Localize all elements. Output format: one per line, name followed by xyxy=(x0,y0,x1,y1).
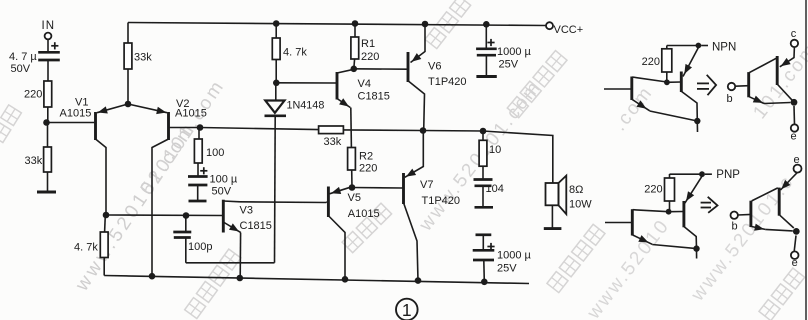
terminal label PNP xyxy=(705,169,740,181)
terminal e bottom (PNP eq) xyxy=(791,251,799,269)
node R1 bottom xyxy=(351,66,358,73)
node NPN base junction xyxy=(664,79,670,85)
node rail 1000u top xyxy=(483,21,490,28)
terminal b (NPN eq) xyxy=(727,83,736,105)
svg-text:50V: 50V xyxy=(11,63,31,75)
speaker 8ohm 10W xyxy=(546,176,593,229)
wire PNP emitter rail xyxy=(652,245,696,249)
node Zobel top xyxy=(480,128,487,135)
node PNP bottom xyxy=(693,245,699,258)
node rail V6 xyxy=(422,21,429,28)
resistor 220 input xyxy=(24,81,52,123)
svg-text:25V: 25V xyxy=(497,263,517,275)
svg-text:A1015: A1015 xyxy=(60,108,92,120)
wire V7 base xyxy=(352,187,403,190)
resistor 10 xyxy=(479,131,501,180)
svg-text:220: 220 xyxy=(642,56,660,68)
svg-text:V3: V3 xyxy=(240,205,253,217)
svg-text:e: e xyxy=(793,154,799,166)
node output xyxy=(420,127,427,134)
svg-text:C1815: C1815 xyxy=(358,91,390,103)
wire V1 base xyxy=(47,122,95,124)
capacitor 1000u/25V bottom xyxy=(473,235,532,282)
svg-text:e: e xyxy=(791,131,797,143)
node rail V2 collector xyxy=(149,273,156,280)
node driver (R2/V5e/V7b) xyxy=(349,184,356,191)
svg-text:1N4148: 1N4148 xyxy=(287,100,325,112)
node diode anode / V4 base xyxy=(273,80,280,87)
node NPN-eq emitter xyxy=(791,99,798,106)
node rail V5 collector xyxy=(342,276,349,283)
ground input xyxy=(37,191,56,194)
resistor R2 220 xyxy=(348,148,378,188)
transistor V6 T1P420 xyxy=(408,24,467,131)
svg-text:V5: V5 xyxy=(348,192,361,204)
svg-text:VCC+: VCC+ xyxy=(554,24,584,36)
transistor V5 A1015 xyxy=(326,187,379,280)
svg-text:220: 220 xyxy=(359,163,377,175)
svg-text:A1015: A1015 xyxy=(175,108,207,120)
diode 1N4148 xyxy=(265,86,325,263)
equivalence arrow NPN xyxy=(697,75,716,95)
node V2 base xyxy=(197,124,204,131)
transistor V2 A1015 xyxy=(128,98,207,276)
svg-text:IN: IN xyxy=(42,20,56,32)
terminal c (NPN eq) xyxy=(791,28,798,47)
resistor 220 (NPN pair) xyxy=(642,46,672,83)
node rail V7 collector xyxy=(415,277,422,284)
svg-text:50V: 50V xyxy=(212,186,232,198)
wire NPN top xyxy=(667,45,699,47)
svg-text:10: 10 xyxy=(489,144,501,156)
svg-text:1: 1 xyxy=(402,300,412,320)
wire bottom rail xyxy=(104,276,529,284)
svg-text:8Ω: 8Ω xyxy=(569,184,583,196)
terminal label NPN xyxy=(701,42,736,54)
wire output to speaker xyxy=(423,131,553,184)
svg-text:33k: 33k xyxy=(25,155,43,167)
node PNP-eq collector xyxy=(793,228,800,235)
node rail V3 emitter xyxy=(237,275,244,282)
svg-text:100p: 100p xyxy=(188,241,212,253)
transistor Q3 (PNP pair driver) xyxy=(605,209,669,244)
svg-text:33k: 33k xyxy=(324,136,342,148)
capacitor 100u/50V xyxy=(188,167,238,201)
resistor 33k tail xyxy=(124,23,152,105)
wire V1 collector to V3 base xyxy=(106,214,222,217)
node rail top 4.7k xyxy=(273,20,280,27)
capacitor C-in 4.7u/50V xyxy=(9,42,60,81)
transistor Q4 (PNP pair output) xyxy=(669,177,702,249)
wire feedback to output xyxy=(343,129,423,132)
terminal IN xyxy=(42,20,56,52)
svg-text:R1: R1 xyxy=(361,38,375,50)
transistor Q2 (NPN pair output) xyxy=(667,48,699,122)
svg-text:1000 µ: 1000 µ xyxy=(497,250,532,262)
svg-text:C1815: C1815 xyxy=(240,220,272,232)
svg-text:1000 µ: 1000 µ xyxy=(497,46,532,58)
wire NPN emitter rail xyxy=(650,111,698,121)
resistor 220 (PNP pair) xyxy=(644,174,674,212)
resistor 33k to ground xyxy=(25,123,52,193)
svg-text:V4: V4 xyxy=(358,78,371,90)
wire feedback xyxy=(200,128,319,130)
terminal b (PNP eq) xyxy=(731,212,738,233)
transistor Q1 (NPN pair driver) xyxy=(604,77,667,111)
node NPN bottom xyxy=(694,118,700,132)
terminal VCC+ xyxy=(546,22,583,36)
svg-text:220: 220 xyxy=(644,184,662,196)
wire V6 base xyxy=(354,68,407,70)
svg-text:b: b xyxy=(731,221,737,233)
node V1 collector xyxy=(103,212,110,219)
svg-text:V7: V7 xyxy=(420,179,433,191)
transistor V1 A1015 xyxy=(60,97,129,216)
capacitor 100p xyxy=(173,216,274,263)
svg-text:4. 7k: 4. 7k xyxy=(74,242,98,254)
resistor R1 220 xyxy=(351,23,379,69)
terminal e (NPN eq) xyxy=(791,124,799,142)
node rail 1000u bottom xyxy=(481,279,488,286)
transistor V4 C1815 xyxy=(276,69,390,147)
node PNP terminal xyxy=(699,171,705,177)
node NPN terminal xyxy=(696,43,702,49)
svg-text:25V: 25V xyxy=(499,59,519,71)
wire top rail xyxy=(128,23,546,26)
svg-text:10W: 10W xyxy=(569,199,592,211)
transistor NPN equivalent xyxy=(735,47,794,125)
wire PNP top xyxy=(670,173,703,175)
capacitor 1000u/25V top xyxy=(476,24,531,75)
svg-text:A1015: A1015 xyxy=(348,208,380,220)
node PNP base junction xyxy=(666,209,672,215)
capacitor 104 xyxy=(474,180,504,208)
svg-text:33k: 33k xyxy=(134,52,152,64)
equivalence arrow PNP xyxy=(701,197,718,213)
wire V3 collector to V5 base xyxy=(240,201,326,204)
ground speaker xyxy=(544,227,562,230)
transistor V3 C1815 xyxy=(223,200,272,279)
svg-text:4. 7 µ: 4. 7 µ xyxy=(9,51,37,63)
resistor 4.7k bias xyxy=(272,24,307,83)
svg-text:104: 104 xyxy=(486,183,504,195)
svg-text:4. 7k: 4. 7k xyxy=(283,47,307,59)
node rail R1 xyxy=(352,20,359,27)
svg-text:PNP: PNP xyxy=(716,169,740,181)
ground 1000u top xyxy=(476,75,496,78)
svg-text:100: 100 xyxy=(206,147,224,159)
svg-text:e: e xyxy=(792,257,798,269)
resistor 4.7k V1 load xyxy=(74,215,108,276)
svg-text:T1P420: T1P420 xyxy=(422,195,461,207)
terminal e top (PNP eq) xyxy=(793,154,801,173)
node input/base V1 xyxy=(43,119,50,126)
svg-text:b: b xyxy=(727,93,733,105)
svg-text:c: c xyxy=(791,28,797,40)
resistor 33k feedback xyxy=(319,126,344,148)
node V3 base / 100p xyxy=(183,212,190,219)
svg-text:R2: R2 xyxy=(359,151,373,163)
svg-text:220: 220 xyxy=(24,89,42,101)
resistor 100 xyxy=(194,128,224,177)
svg-text:220: 220 xyxy=(361,51,379,63)
transistor V7 T1P420 xyxy=(404,131,461,281)
svg-text:NPN: NPN xyxy=(712,42,736,54)
svg-text:100 µ: 100 µ xyxy=(210,174,238,186)
label figure 1 xyxy=(396,299,418,320)
svg-text:V6: V6 xyxy=(428,61,441,73)
node tail (V1/V2 emitters) xyxy=(125,101,132,108)
svg-text:T1P420: T1P420 xyxy=(428,76,467,88)
transistor PNP equivalent xyxy=(738,173,797,252)
